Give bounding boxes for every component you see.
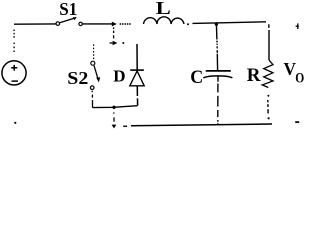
svg-text:O: O: [295, 70, 304, 86]
node: return path dot bottom-left: [14, 122, 16, 124]
capacitor C: [206, 70, 231, 72]
node: dotted feed above switch S2: [93, 44, 95, 59]
current arrow (dash-dot) down to bottom wire: [113, 112, 115, 113]
node: dotted feed from top wire down to source: [13, 30, 15, 53]
svg-text:S2: S2: [67, 68, 88, 88]
voltage source V: [2, 61, 26, 85]
junction node at capacitor column: [215, 22, 218, 25]
inductor L: [144, 17, 185, 24]
wire: bottom long horizontal: [123, 125, 127, 127]
switch S2: [90, 61, 100, 89]
wire: dotted continuation toward inductor: [119, 23, 130, 25]
svg-text:R: R: [247, 65, 261, 86]
junction node: [112, 106, 115, 109]
svg-text:S1: S1: [59, 0, 77, 19]
capacitor C top lead (solid / dash-dot / solid): [216, 24, 217, 70]
current arrow (dash-dot) from junction into diode branch: [110, 27, 114, 43]
svg-text:V: V: [284, 59, 297, 79]
wire: S2 lower dash-dot to bottom corner: [91, 91, 93, 108]
resistor R column: top dashes from corner: [268, 24, 270, 60]
resistor R: [262, 60, 273, 87]
switch S1: [56, 17, 82, 26]
wire: bottom mid horizontal (S2 to diode): [93, 106, 138, 108]
diode D: [130, 44, 144, 106]
wire: top-left horizontal: [14, 23, 56, 25]
wire: inductor to right corner: [187, 23, 189, 25]
wire: S1 to junction, ends with right arrowhead: [83, 23, 113, 25]
plus polarity mark: [296, 23, 299, 29]
svg-text:L: L: [156, 0, 171, 18]
minus polarity mark: [295, 121, 299, 123]
svg-text:C: C: [190, 67, 203, 88]
svg-text:D: D: [113, 67, 125, 86]
